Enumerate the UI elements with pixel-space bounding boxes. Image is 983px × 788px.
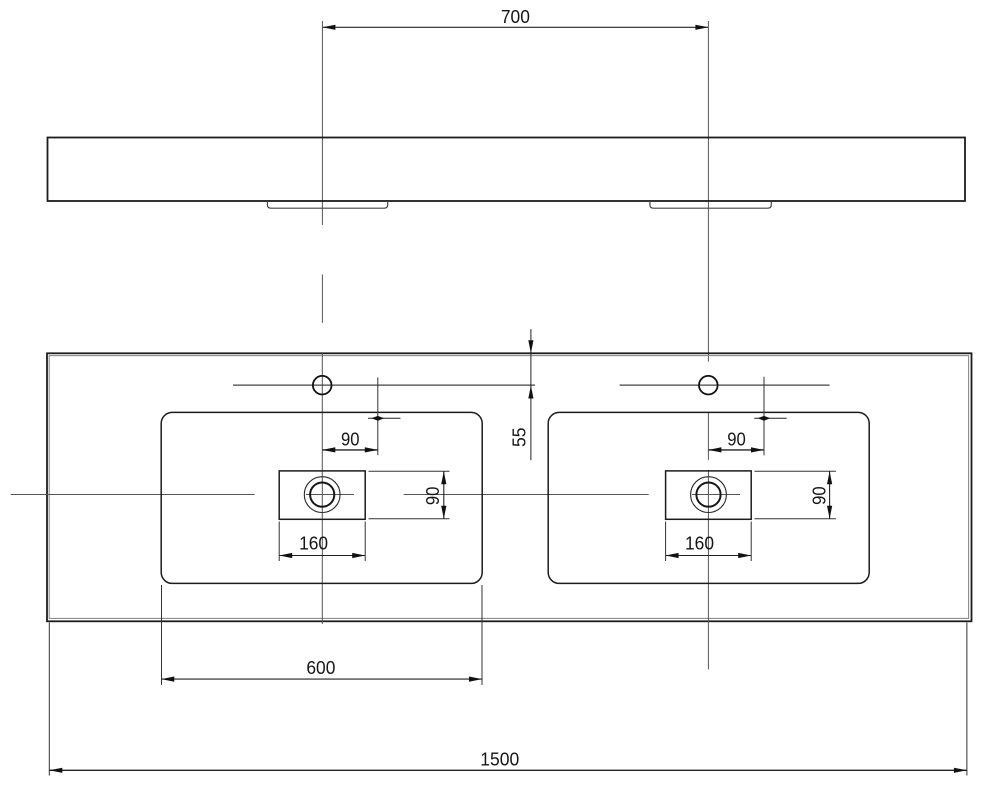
svg-text:160: 160 — [299, 532, 328, 553]
dim 55 top arrow — [528, 340, 533, 353]
left drain dim 90 line — [443, 471, 445, 519]
left drain inner circle — [310, 483, 334, 507]
svg-text:90: 90 — [422, 487, 443, 506]
dim 600 right arrow — [469, 677, 482, 682]
center line right lower — [707, 470, 709, 669]
dim 1500 right arrow — [954, 768, 967, 773]
right faucet hole — [699, 376, 718, 395]
drain center line horizontal seg 4 — [692, 494, 740, 496]
dim 700 left arrow — [322, 25, 335, 30]
drain center line horizontal seg 3 — [404, 494, 649, 496]
right drain inner circle — [696, 483, 720, 507]
right drain dim 90 line — [829, 471, 831, 519]
dim 600 left arrow — [161, 677, 174, 682]
svg-text:1500: 1500 — [480, 748, 519, 769]
dim 55 bottom arrow — [528, 386, 533, 399]
svg-text:160: 160 — [685, 532, 714, 553]
dim 55 vertical line — [530, 329, 532, 460]
right faucet dim 90 left arrow — [708, 447, 721, 452]
side view basin outline — [48, 138, 966, 202]
plan view inner rect — [49, 356, 968, 619]
plan view outer rect — [47, 353, 972, 621]
drain center line horizontal seg 2 — [306, 494, 354, 496]
left opposing arrows mark — [368, 417, 401, 419]
left drain dim 90 up arrow — [441, 471, 446, 484]
right drain dim 90 down arrow — [827, 506, 832, 519]
right drain dim 90 top extension — [755, 470, 836, 472]
side view left mounting tab — [267, 201, 387, 208]
dim 700 right arrow — [695, 25, 708, 30]
left dim 160 left extension — [278, 522, 280, 562]
left drain outer circle — [304, 477, 340, 513]
left dim 160 right extension — [364, 522, 366, 562]
right drain dim 90 up arrow — [827, 471, 832, 484]
dim 1500 line — [49, 769, 967, 771]
left drain rect — [279, 471, 365, 519]
left dim 160 left arrow — [279, 553, 292, 558]
right drain outer circle — [691, 477, 727, 513]
right dim 160 left arrow — [666, 553, 679, 558]
svg-text:55: 55 — [509, 427, 530, 447]
right faucet dim 90 line — [708, 449, 764, 451]
right drain dim 90 bottom extension — [755, 518, 836, 520]
svg-text:90: 90 — [808, 486, 829, 505]
left drain dim 90 top extension — [369, 470, 450, 472]
center line left dash — [321, 275, 323, 323]
left faucet hole — [313, 376, 332, 395]
left drain dim 90 down arrow — [441, 506, 446, 519]
side view right mounting tab — [650, 201, 771, 208]
left dim 160 right arrow — [352, 553, 365, 558]
dim 600 left extension — [161, 585, 163, 685]
left faucet dim 90 line — [322, 449, 378, 451]
left basin bowl — [161, 412, 482, 583]
dim 700 line — [322, 26, 708, 28]
svg-text:600: 600 — [306, 657, 335, 678]
center line right upper — [707, 21, 709, 362]
left faucet dim 90 right arrow — [365, 447, 378, 452]
dim 600 right extension — [481, 585, 483, 685]
svg-text:90: 90 — [341, 428, 360, 449]
left drain dim 90 bottom extension — [369, 518, 450, 520]
right faucet dim 90 right arrow — [751, 447, 764, 452]
right faucet hole line — [620, 384, 830, 386]
drain center line horizontal seg 1 — [11, 494, 255, 496]
right dim 160 line — [666, 555, 752, 557]
right dim 160 right arrow — [738, 553, 751, 558]
dim 1500 left extension — [48, 623, 50, 776]
right dim 160 right extension — [750, 522, 752, 562]
dim 1500 left arrow — [49, 768, 62, 773]
left faucet dim 90 left arrow — [322, 447, 335, 452]
center line left in plan view — [321, 354, 323, 625]
dim 1500 right extension — [966, 623, 968, 776]
left faucet hole line — [233, 384, 535, 386]
right faucet dim 90 extension line — [763, 377, 765, 456]
right dim 160 left extension — [665, 522, 667, 562]
center line left upper — [321, 21, 323, 225]
left faucet dim 90 extension line — [377, 377, 379, 455]
svg-text:90: 90 — [727, 428, 746, 449]
right basin bowl — [548, 412, 869, 583]
left dim 160 line — [279, 555, 365, 557]
svg-text:700: 700 — [501, 6, 530, 27]
center line right in basin — [707, 412, 709, 460]
right opposing arrows mark — [754, 417, 787, 419]
right drain rect — [666, 471, 752, 519]
dim 600 line — [161, 678, 482, 680]
